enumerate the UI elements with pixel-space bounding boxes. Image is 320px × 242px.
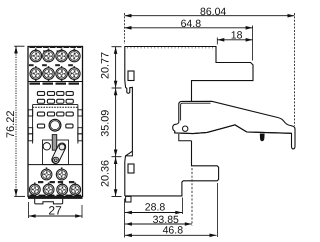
svg-text:27: 27	[48, 204, 62, 218]
side top edge texture dots	[127, 47, 214, 49]
svg-text:46.8: 46.8	[163, 225, 184, 237]
front view body outline	[28, 47, 83, 197]
ext line 252.6	[252, 26, 254, 61]
angled ejector lever	[51, 142, 67, 165]
dim 35.09	[115, 88, 117, 156]
svg-text:20.77: 20.77	[99, 52, 111, 79]
side body outline lower right	[125, 141, 219, 196]
lower square hole	[128, 164, 134, 173]
svg-text:86.04: 86.04	[200, 6, 226, 18]
label marks row under divider	[30, 83, 80, 85]
slot row 1	[37, 92, 44, 96]
clip inner fold contour	[181, 103, 211, 120]
gray lever	[52, 135, 56, 151]
lower claw wedge	[126, 151, 133, 156]
bottom small tab	[126, 196, 131, 202]
dim 46.8	[125, 234, 217, 236]
dim 64.8	[125, 27, 253, 29]
ext 192 dotted	[191, 168, 193, 226]
slot row 4 (outer two)	[37, 124, 44, 128]
middle terminal pair	[41, 167, 52, 180]
svg-text:76.22: 76.22	[5, 110, 17, 138]
frame notch boxes	[28, 110, 33, 116]
slot row 2	[37, 99, 44, 103]
upper square hole	[128, 71, 134, 81]
dim 28.8	[125, 212, 182, 214]
clip zigzag lower edge	[175, 125, 292, 134]
retaining clip outline	[173, 101, 295, 149]
inner frame verticals	[32, 105, 34, 144]
mechanism box	[43, 140, 69, 165]
ext left	[124, 199, 126, 238]
svg-text:20.36: 20.36	[99, 160, 111, 187]
dim 20.36	[115, 157, 117, 196]
top edge label marks	[30, 46, 82, 48]
mech circle left	[43, 143, 50, 150]
dimension 76.22 left	[15, 52, 17, 191]
clip pivot circle	[183, 126, 188, 131]
divider above bottom terminals	[28, 164, 83, 166]
terminal row 2	[30, 66, 42, 79]
svg-text:28.8: 28.8	[145, 202, 166, 214]
dim 18	[217, 39, 252, 41]
slot row 3	[37, 112, 44, 116]
divider below terminals	[28, 81, 83, 83]
ticks below row2	[35, 80, 75, 82]
ext line 217	[216, 38, 218, 45]
ext 217	[216, 183, 218, 237]
svg-text:64.8: 64.8	[181, 18, 202, 30]
side body outline upper	[125, 47, 253, 103]
terminal row 1	[30, 49, 42, 62]
side left edge with DIN claws	[125, 81, 133, 196]
inner band lines	[33, 104, 78, 106]
clip lower tab	[179, 134, 192, 141]
dim 20.77	[115, 47, 117, 88]
bottom thick border band	[28, 196, 83, 199]
dimension 27 bottom	[28, 202, 30, 218]
bottom tab under body	[35, 199, 63, 204]
labels under pair	[38, 181, 74, 183]
svg-text:18: 18	[231, 30, 243, 42]
ext line left top	[124, 13, 126, 44]
labels under row 1	[29, 50, 73, 66]
ext line right (clip tip)	[294, 13, 296, 126]
ext 182.5	[182, 198, 184, 215]
dim 86.04	[125, 15, 295, 17]
svg-text:35.09: 35.09	[99, 110, 111, 137]
big center circle	[49, 119, 61, 131]
bottom label strip	[30, 195, 82, 197]
clip tooth	[260, 134, 265, 142]
bottom terminal row	[29, 183, 40, 196]
dim 33.85	[125, 223, 192, 225]
